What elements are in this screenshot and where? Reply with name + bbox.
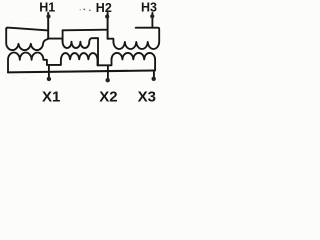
- scan speck: [89, 10, 91, 12]
- scan speck: [80, 9, 81, 10]
- terminal H1 lead: [47, 13, 49, 39]
- terminal H3 lead: [151, 13, 153, 28]
- wire vertical at left end of line C: [62, 30, 64, 41]
- wire line C (to H2 node): [63, 29, 108, 32]
- node X1 dot: [47, 77, 51, 81]
- node X2 dot: [106, 78, 110, 82]
- terminal H2 lead: [107, 13, 109, 39]
- svg-text:H3: H3: [141, 1, 157, 15]
- node H2 dot: [105, 15, 109, 19]
- node H1 dot: [46, 14, 50, 18]
- terminal X2 lead: [107, 65, 109, 78]
- winding W4 (bottom row left, 3 bowls): [8, 53, 61, 73]
- winding W1 (top row left, 3 bowls): [6, 29, 48, 50]
- wire top line A (H1 node to left corner): [6, 28, 48, 31]
- wire H2 to W3: [108, 39, 114, 42]
- terminal X3 lead: [153, 71, 156, 78]
- winding W3 (top row right, 4 bowls): [113, 28, 159, 49]
- wire H1 to W2: [48, 39, 62, 42]
- winding W5 (bottom row middle, 4 bowls): [61, 53, 98, 65]
- svg-text:X1: X1: [42, 89, 60, 106]
- wire X2 segment: [98, 59, 112, 65]
- wire bottom rail: [8, 71, 154, 73]
- svg-text:X2: X2: [99, 89, 117, 106]
- winding W2 (top row middle, 3 bowls): [63, 38, 98, 65]
- node H3 dot: [150, 14, 154, 18]
- scan speck: [83, 9, 85, 11]
- terminal X1 lead: [48, 65, 50, 77]
- svg-text:H1: H1: [39, 1, 55, 15]
- winding W6 (bottom row right, 4 bowls): [112, 53, 156, 71]
- svg-text:X3: X3: [138, 89, 156, 106]
- svg-text:H2: H2: [96, 1, 112, 15]
- node X3 dot: [152, 77, 156, 81]
